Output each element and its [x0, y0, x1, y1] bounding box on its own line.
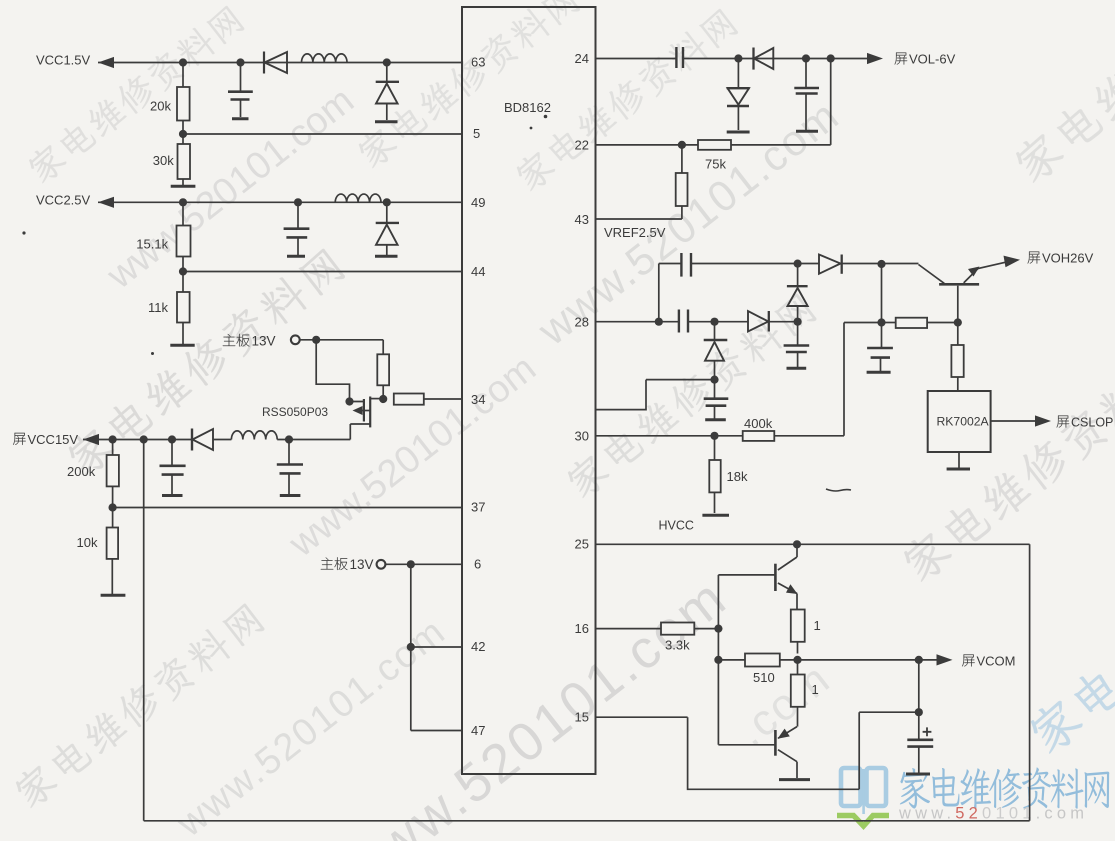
svg-text:30k: 30k [153, 153, 174, 168]
net arrow 屏VOH26V [1004, 256, 1021, 268]
pin 37 label [471, 500, 485, 515]
wire gate path [316, 340, 363, 402]
svg-text:30: 30 [575, 429, 589, 444]
wire bottom rail [144, 820, 1030, 822]
wire VOH rail [659, 263, 919, 265]
wire R2 to ground [182, 179, 184, 185]
capacitor C9 [784, 322, 810, 367]
logo 520101.com (decorative) [837, 767, 1109, 826]
wire VCC1.5V rail to pin 63 [98, 62, 462, 64]
resistor R13 (base) [882, 318, 958, 328]
wire pin 42 row [411, 646, 462, 648]
capacitor C3 [160, 440, 186, 495]
pin 5 label [473, 126, 480, 141]
resistor R4 11k [148, 272, 190, 323]
junction n2 [179, 130, 187, 138]
inductor L3 [231, 431, 277, 440]
junction n16 [710, 376, 718, 384]
diode D7 [819, 255, 842, 274]
svg-text:13V: 13V [350, 557, 374, 572]
wire 400k to n14b [774, 323, 881, 436]
capacitor C8 (series) [679, 310, 688, 333]
resistor R3 15.1k [136, 202, 190, 256]
svg-text:VCOM: VCOM [977, 653, 1016, 668]
diode D5 [754, 48, 774, 70]
wire R8 to ground [111, 559, 113, 594]
net arrow 屏VCC15V [83, 434, 99, 445]
svg-text:VREF2.5V: VREF2.5V [604, 225, 666, 240]
junction n13 [794, 260, 802, 268]
junction n9 [407, 560, 415, 568]
ground R12 [702, 514, 729, 517]
wire 主板13V to R5 [300, 339, 384, 341]
IC U1 BD8162 [462, 7, 596, 774]
pin 22 label [575, 138, 589, 153]
net label 主板13V (top) [223, 334, 276, 349]
wire Q3 base [718, 574, 775, 576]
net label VREF2.5V [604, 225, 666, 240]
wire pin 28 row [596, 321, 798, 323]
ground C11 [867, 371, 891, 374]
capacitor C6 [794, 59, 819, 131]
junction n7c [168, 435, 176, 443]
net label VCC1.5V [36, 53, 91, 68]
capacitor C4 [277, 440, 303, 495]
junction n3b [294, 198, 302, 206]
resistor R1 20k [150, 63, 190, 121]
svg-text:44: 44 [471, 264, 485, 279]
wire pin 6 row [385, 563, 462, 565]
junction n7b [140, 435, 148, 443]
svg-text:20k: 20k [150, 99, 171, 114]
junction n23 [915, 708, 923, 716]
svg-text:6: 6 [474, 557, 481, 572]
svg-text:3.3k: 3.3k [665, 638, 690, 653]
pin 63 label [471, 55, 485, 70]
ground D2 [375, 120, 398, 123]
junction n22a [714, 656, 722, 664]
resistor R17 510 [745, 654, 780, 686]
pin 24 label [575, 51, 589, 66]
IC U2 RK7002A [928, 391, 991, 452]
junction n4 [179, 267, 187, 275]
svg-text:VOL-6V: VOL-6V [909, 52, 956, 67]
junction n15b [710, 318, 718, 326]
wire pin 15 routing [596, 712, 919, 789]
wire n14 vertical [881, 264, 883, 323]
net label 主板13V (bottom) [321, 557, 374, 572]
junction n5 [312, 336, 320, 344]
terminal circle 主板13V [291, 335, 300, 344]
svg-text:VCC2.5V: VCC2.5V [36, 193, 91, 208]
svg-text:RSS050P03: RSS050P03 [262, 405, 328, 419]
junction n17 [710, 432, 718, 440]
wire pin 5 row [183, 121, 462, 135]
speck 1 [544, 115, 548, 119]
net label 屏VOH26V [1028, 251, 1094, 266]
ground D3 [375, 255, 398, 258]
transistor Q1 RSS050P03 MOSFET [262, 397, 383, 440]
wire pin 24 row [596, 58, 868, 60]
svg-text:5: 5 [473, 126, 480, 141]
wire Q4 base [718, 744, 775, 746]
net arrow VCC1.5V [98, 57, 114, 68]
pin 30 label [575, 429, 589, 444]
resistor R9 75k [698, 140, 731, 172]
svg-text:510: 510 [753, 670, 775, 685]
svg-text:47: 47 [471, 723, 485, 738]
scratch mark 1 [826, 489, 851, 491]
net label 屏VCC15V [13, 432, 78, 447]
pin 25 label [575, 537, 589, 552]
ground R2 [171, 185, 196, 188]
svg-text:11k: 11k [148, 300, 168, 315]
net label 屏VOL-6V [895, 52, 956, 67]
terminal circle 主板13V 2 [377, 560, 386, 569]
wire bases vertical [717, 575, 719, 745]
pin 49 label [471, 195, 485, 210]
diode D9 [748, 311, 769, 332]
junction n20 [793, 540, 801, 548]
net label HVCC [659, 519, 694, 533]
wire pin 22 row [596, 144, 831, 146]
ground Q4 [779, 778, 810, 781]
speck 2 [530, 127, 533, 130]
junction n1c [383, 58, 391, 66]
capacitor C7 (series) [681, 253, 691, 277]
diode D6 [727, 59, 750, 131]
svg-text:VCC1.5V: VCC1.5V [36, 53, 91, 68]
wire 屏VCOM row [718, 659, 944, 661]
ground R4 [170, 344, 194, 347]
svg-text:RK7002A: RK7002A [937, 415, 990, 429]
net label 屏VCOM [962, 653, 1015, 668]
junction gate node [345, 397, 353, 405]
svg-text:10k: 10k [77, 535, 98, 550]
resistor R18 1 (lower) [791, 660, 819, 727]
svg-text:www.520101.com: www.520101.com [898, 805, 1088, 823]
junction n1a [179, 58, 187, 66]
svg-text:BD8162: BD8162 [504, 100, 551, 115]
junction n11c [827, 54, 835, 62]
junction n14 [877, 260, 885, 268]
junction n7a [109, 435, 117, 443]
wire VOH left drop [658, 264, 660, 322]
net arrow VCC2.5V [98, 197, 114, 208]
wire pin 43 row [596, 218, 682, 220]
junction n19 [954, 318, 962, 326]
svg-text:43: 43 [575, 212, 589, 227]
junction n11b [802, 54, 810, 62]
svg-text:16: 16 [575, 621, 589, 636]
svg-text:VCC15V: VCC15V [28, 432, 79, 447]
junction n7d [285, 435, 293, 443]
svg-text:15: 15 [575, 710, 589, 725]
svg-text:CSLOP: CSLOP [1071, 416, 1113, 430]
transistor Q3 (NPN upper) [775, 544, 797, 609]
resistor R10 (22-43) [676, 145, 688, 219]
wire R5 to pin34 node [382, 385, 384, 399]
svg-text:37: 37 [471, 500, 485, 515]
svg-text:1: 1 [812, 682, 819, 697]
junction n3a [179, 198, 187, 206]
speck 3 [151, 352, 154, 355]
net arrow 屏VOL-6V [867, 53, 883, 64]
capacitor C11 [867, 323, 893, 372]
wire right edge vertical [1029, 544, 1031, 821]
ground C3 [162, 494, 183, 497]
pin 16 label [575, 621, 589, 636]
wire pin 34 row [424, 398, 462, 400]
pin 28 label [575, 315, 589, 330]
resistor R2 30k [153, 134, 190, 179]
diode D4 [192, 429, 213, 451]
svg-text:49: 49 [471, 195, 485, 210]
net label VCC2.5V [36, 193, 91, 208]
svg-text:75k: 75k [705, 157, 726, 172]
resistor R16 1 (upper) [791, 610, 821, 654]
resistor R12 18k [709, 436, 748, 513]
wire pin 30 row [596, 435, 743, 437]
speck 4 [22, 231, 25, 234]
pin 44 label [471, 264, 485, 279]
svg-text:18k: 18k [727, 469, 748, 484]
inductor L2 [335, 194, 381, 202]
svg-text:15.1k: 15.1k [136, 237, 168, 252]
svg-text:63: 63 [471, 55, 485, 70]
capacitor C2 [284, 202, 310, 255]
resistor R6 (to pin 34) [394, 394, 424, 405]
junction n15a [655, 318, 663, 326]
svg-text:34: 34 [471, 392, 485, 407]
diode D1 [264, 52, 287, 74]
svg-text:24: 24 [575, 51, 589, 66]
wire pin 25 row [596, 543, 1030, 545]
ground C6 [796, 130, 818, 133]
wire pin 47 row [411, 730, 462, 732]
junction n15c [794, 318, 802, 326]
ground C10 [705, 418, 726, 421]
svg-text:22: 22 [575, 138, 589, 153]
net label 屏CSLOP [1057, 416, 1114, 430]
resistor R14 (to RK7002A) [951, 323, 963, 392]
junction n22b [793, 656, 801, 664]
pin 6 label [474, 557, 481, 572]
capacitor C12 electrolytic [907, 712, 933, 772]
pin 15 label [575, 710, 589, 725]
ground C4 [280, 494, 301, 497]
wire pins 6-42-47 vertical [410, 564, 412, 730]
transistor Q2 (VOH emitter follower) [919, 261, 1010, 284]
wire pin 37 row [113, 486, 462, 507]
wire pin 16 row [596, 628, 719, 630]
ground D6 [727, 131, 750, 134]
diode D2 [376, 63, 399, 121]
diode D8 [787, 264, 808, 322]
ground R8 [101, 594, 126, 597]
ground C12 [906, 773, 930, 776]
svg-text:42: 42 [471, 639, 485, 654]
ground C2 [287, 255, 305, 258]
svg-text:200k: 200k [67, 464, 96, 479]
pin 43 label [575, 212, 589, 227]
net arrow 屏CSLOP [1035, 415, 1051, 426]
wire R4 to ground [182, 323, 184, 345]
pin 47 label [471, 723, 485, 738]
wire VCC2.5V rail to pin 49 [98, 201, 462, 203]
wire base up [957, 286, 959, 323]
ground C1 [232, 117, 249, 120]
wire CSLOP out [991, 420, 1036, 422]
junction n12 [678, 141, 686, 149]
diode D10 [704, 322, 728, 380]
svg-text:13V: 13V [252, 334, 276, 349]
junction n10 [407, 643, 415, 651]
ground C9 [787, 367, 807, 370]
wire pin 44 row [183, 257, 462, 272]
junction n21 [714, 625, 722, 633]
pin 42 label [471, 639, 485, 654]
transistor Q4 (PNP lower) [775, 727, 797, 778]
wire VOL-6V to 75k [830, 59, 832, 145]
junction n22c [915, 656, 923, 664]
svg-text:1: 1 [814, 618, 821, 633]
diode D3 [376, 202, 399, 255]
inductor L1 [302, 54, 348, 63]
svg-text:VOH26V: VOH26V [1042, 251, 1094, 266]
resistor R11 400k [743, 416, 775, 441]
resistor R15 3.3k [661, 623, 694, 653]
svg-text:25: 25 [575, 537, 589, 552]
svg-text:28: 28 [575, 315, 589, 330]
capacitor C5 (series) [676, 47, 683, 68]
junction n11a [734, 54, 742, 62]
resistor R8 10k [77, 508, 119, 559]
wire step to IC [596, 380, 715, 410]
net arrow 屏VCOM [937, 654, 953, 665]
junction n8 [109, 503, 117, 511]
junction n3c [383, 198, 391, 206]
junction n18 [877, 318, 885, 326]
capacitor C10 [704, 380, 729, 419]
wire RK7002A ground lead [958, 452, 960, 468]
junction n1b [236, 58, 244, 66]
wire left long vertical [143, 440, 145, 821]
resistor R5 (gate pullup) [377, 340, 389, 386]
junction n6 [379, 395, 387, 403]
wire 屏VCC15V rail [83, 439, 350, 441]
capacitor C1 [228, 63, 253, 118]
wire VCOM cap drop [918, 660, 920, 712]
svg-text:400k: 400k [744, 416, 773, 431]
resistor R7 200k [67, 440, 119, 487]
svg-text:HVCC: HVCC [659, 519, 694, 533]
pin 34 label [471, 392, 485, 407]
ground U2 [947, 468, 970, 471]
